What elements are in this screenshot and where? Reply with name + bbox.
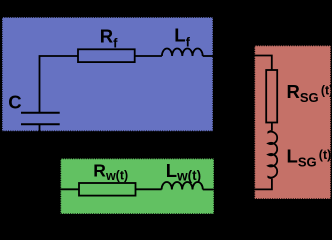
wire: R_SG to L_SG xyxy=(271,123,273,131)
blue box: capacitor + feed circuit xyxy=(2,17,213,131)
wire: green box left entry xyxy=(60,188,79,190)
green box: wire load xyxy=(61,159,215,215)
inductor L_w xyxy=(162,182,203,190)
resistor R_SG xyxy=(266,70,277,123)
wire: red box top entry xyxy=(254,56,272,71)
inductor L_SG xyxy=(268,130,277,179)
wire: L_SG to red box left edge xyxy=(254,179,272,190)
capacitor C bottom plate xyxy=(21,123,60,125)
wire: R_w to L_w xyxy=(136,188,162,190)
wire: L_w to green box right edge xyxy=(203,189,214,191)
red box: spark gap xyxy=(255,46,331,200)
wire: L_f to blue box edge xyxy=(203,55,213,57)
resistor R_w xyxy=(79,183,136,196)
resistor R_f xyxy=(78,49,135,62)
wire: capacitor bottom stub xyxy=(39,125,41,132)
svg-text:C: C xyxy=(8,92,21,113)
wire: R_f left lead + down to capacitor xyxy=(40,56,79,112)
wire: R_f to L_f xyxy=(135,55,162,57)
capacitor C top plate xyxy=(21,112,60,114)
inductor L_f xyxy=(162,49,203,56)
